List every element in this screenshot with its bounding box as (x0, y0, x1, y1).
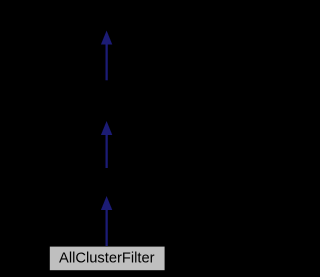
svg-text:AllClusterFilter: AllClusterFilter (59, 251, 155, 267)
